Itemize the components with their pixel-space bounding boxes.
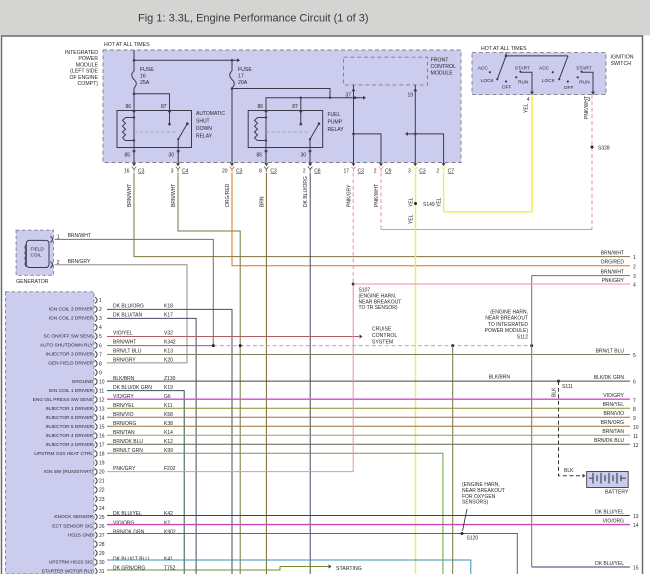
- generator pin1 bracket: [51, 236, 53, 242]
- relay K1 pin 30 exit arrow: [177, 148, 179, 164]
- svg-text:FUSE: FUSE: [140, 67, 154, 73]
- svg-text:IGN COIL 3 DRIVER: IGN COIL 3 DRIVER: [49, 307, 94, 313]
- battery arrow: [583, 474, 586, 478]
- svg-text:DK BLU/YEL: DK BLU/YEL: [595, 561, 624, 567]
- svg-text:OFF: OFF: [564, 85, 574, 91]
- wire PNK/GRY from 17C3 to S107: [352, 173, 354, 284]
- connector 2 C8 exit: [308, 163, 312, 166]
- wire ASD 87 feed: [134, 94, 170, 111]
- svg-text:9: 9: [633, 416, 636, 422]
- svg-text:ACC: ACC: [478, 66, 489, 72]
- svg-text:LOCK: LOCK: [481, 78, 495, 84]
- svg-text:17: 17: [238, 74, 244, 80]
- svg-text:YEL: YEL: [524, 103, 530, 113]
- wire K13 injector 3 to right edge (5): [107, 354, 630, 356]
- wire Z130 ground to S111: [107, 380, 559, 382]
- battery symbol cells: [589, 477, 593, 479]
- title bar: [0, 0, 650, 36]
- svg-text:16: 16: [124, 169, 130, 175]
- oxygen sensors pointer line: [463, 509, 468, 531]
- svg-text:S112: S112: [517, 334, 529, 340]
- generator pin2 bracket: [51, 262, 53, 268]
- svg-text:YEL: YEL: [409, 214, 415, 224]
- wire ORG/RED from 20C3 to right edge (2): [232, 173, 630, 266]
- svg-text:FUSE: FUSE: [238, 67, 252, 73]
- svg-text:15: 15: [99, 425, 105, 431]
- svg-text:STARTER MOTOR RLY: STARTER MOTOR RLY: [42, 568, 94, 574]
- svg-text:4: 4: [527, 97, 530, 103]
- wire K2 ECT sensor to right edge (14): [107, 524, 630, 526]
- svg-text:HOT AT ALL TIMES: HOT AT ALL TIMES: [481, 46, 527, 52]
- svg-text:23: 23: [99, 497, 105, 503]
- svg-text:C8: C8: [314, 169, 321, 175]
- wire FPR 87 drop: [300, 98, 302, 111]
- node FCM19 branch: [414, 133, 417, 136]
- svg-text:BRN/DK BLU: BRN/DK BLU: [594, 438, 624, 444]
- wire top bus: [134, 59, 237, 61]
- svg-text:85: 85: [124, 153, 130, 159]
- svg-text:6: 6: [99, 343, 102, 349]
- svg-text:87: 87: [161, 104, 167, 110]
- svg-text:DK BLU/ORG: DK BLU/ORG: [303, 176, 309, 207]
- relay K2 pin 85 exit arrow: [265, 148, 267, 164]
- svg-text:INJECTOR 2 DRIVER: INJECTOR 2 DRIVER: [46, 442, 94, 448]
- svg-text:K902: K902: [164, 529, 176, 535]
- svg-text:BRN/WHT: BRN/WHT: [68, 233, 91, 239]
- svg-text:MODULE: MODULE: [431, 71, 454, 77]
- wire fuel pump relay feed upper: [232, 89, 330, 98]
- svg-text:2: 2: [99, 307, 102, 313]
- wire K38 injector5 to right edge (10): [107, 425, 630, 427]
- wire branch down from dashed run: [452, 346, 454, 574]
- svg-text:LOCK: LOCK: [542, 78, 556, 84]
- svg-text:86: 86: [257, 104, 263, 110]
- connector 17 C3 exit: [352, 163, 356, 166]
- relay K2 pin 87 arrow: [299, 111, 303, 114]
- node splice S120: [461, 532, 464, 535]
- wire PNK/WHT from ignition pin3: [591, 95, 593, 230]
- svg-text:BRN/GRY: BRN/GRY: [68, 259, 91, 265]
- svg-text:BRN/TAN: BRN/TAN: [602, 429, 624, 435]
- svg-text:20A: 20A: [238, 80, 248, 86]
- svg-text:17: 17: [99, 443, 105, 449]
- wire K902 HO2S ground: [107, 534, 517, 574]
- svg-text:7: 7: [99, 352, 102, 358]
- svg-text:POWER: POWER: [78, 56, 98, 62]
- ignition switch1 output wire: [520, 72, 532, 94]
- svg-text:BRN/DK GRN: BRN/DK GRN: [113, 529, 145, 535]
- svg-text:DOWN: DOWN: [196, 126, 212, 132]
- svg-text:PNK/WHT: PNK/WHT: [374, 184, 380, 207]
- svg-text:10: 10: [633, 425, 639, 431]
- wire K342 auto shutdown solid: [107, 345, 213, 347]
- svg-text:BRN: BRN: [259, 196, 265, 207]
- generator box: [16, 230, 53, 275]
- relay K2 switch blade: [310, 124, 319, 140]
- svg-text:IGNITION: IGNITION: [611, 55, 634, 61]
- wire T752 starter motor rly: [107, 567, 328, 571]
- wire fuse17 down to C3 exit: [231, 88, 233, 164]
- svg-text:K2: K2: [164, 520, 170, 526]
- wire K41 upstream HO2S: [107, 560, 471, 574]
- wire K17 ign coil 2: [107, 318, 196, 574]
- node fuse17 branch junction: [231, 87, 234, 90]
- wire BRN/WHT S112 riser to right edge (3): [532, 276, 630, 346]
- relay K1 pin 30 wire: [177, 139, 179, 147]
- svg-text:1: 1: [633, 255, 636, 261]
- svg-text:BLK/BRN: BLK/BRN: [489, 375, 511, 381]
- relay K2 pin 86 arrow: [264, 111, 268, 114]
- svg-text:13: 13: [633, 514, 639, 520]
- svg-text:BRN/ORG: BRN/ORG: [601, 420, 624, 426]
- svg-text:13: 13: [99, 406, 105, 412]
- node splice junctions on K342 run: [212, 344, 215, 347]
- battery box: [587, 472, 629, 488]
- svg-text:3: 3: [171, 169, 174, 175]
- svg-text:21: 21: [99, 479, 105, 485]
- svg-text:12: 12: [633, 443, 639, 449]
- svg-text:Fig 1: 3.3L, Engine Performanc: Fig 1: 3.3L, Engine Performance Circuit …: [138, 13, 369, 25]
- svg-text:SENSORS): SENSORS): [462, 500, 488, 506]
- svg-text:12: 12: [99, 397, 105, 403]
- wire K11 injector1 to right edge (8): [107, 407, 630, 409]
- svg-text:DK BLU/TAN: DK BLU/TAN: [113, 313, 142, 319]
- wire FCM37 branch to C9: [354, 134, 382, 164]
- svg-text:K13: K13: [164, 349, 173, 355]
- connector 8 C3 exit: [264, 163, 268, 166]
- svg-text:S149: S149: [423, 202, 435, 208]
- svg-text:ORG/RED: ORG/RED: [225, 183, 231, 207]
- field coil winding bumps: [25, 245, 26, 267]
- svg-text:BLK: BLK: [564, 468, 574, 474]
- svg-text:KNOCK SENSOR: KNOCK SENSOR: [54, 514, 93, 520]
- svg-text:START: START: [515, 66, 530, 72]
- svg-text:1: 1: [99, 298, 102, 304]
- svg-text:BRN/WHT: BRN/WHT: [113, 340, 136, 346]
- FCM pin 19 wire: [414, 85, 416, 164]
- svg-text:CONTROL: CONTROL: [431, 64, 456, 70]
- relay K1 switch blade: [178, 124, 187, 140]
- svg-text:2: 2: [633, 264, 636, 270]
- svg-text:INJECTOR 5 DRIVER: INJECTOR 5 DRIVER: [46, 424, 94, 430]
- svg-text:RELAY: RELAY: [196, 134, 213, 140]
- svg-text:VIO/ORG: VIO/ORG: [113, 520, 135, 526]
- svg-text:RUN: RUN: [518, 79, 529, 85]
- svg-text:11: 11: [633, 434, 638, 440]
- svg-text:FIELD: FIELD: [31, 247, 45, 252]
- svg-text:TO TR SENSOR): TO TR SENSOR): [359, 305, 398, 311]
- wire PNK/GRY to right edge (4): [353, 283, 630, 285]
- svg-text:(LEFT SIDE: (LEFT SIDE: [70, 69, 98, 75]
- relay K2 87 contact stub: [300, 111, 302, 125]
- svg-text:HOT AT ALL TIMES: HOT AT ALL TIMES: [104, 42, 150, 48]
- relay K2 coil wire: [265, 111, 267, 148]
- svg-text:UPSTRM O2S HEAT CTRL: UPSTRM O2S HEAT CTRL: [34, 451, 93, 457]
- svg-text:8: 8: [633, 407, 636, 413]
- node FCM37 branch: [352, 133, 355, 136]
- svg-text:ACC: ACC: [539, 66, 550, 72]
- svg-text:30: 30: [99, 560, 105, 566]
- svg-text:POWER MODULE): POWER MODULE): [485, 328, 529, 334]
- svg-text:SYSTEM: SYSTEM: [372, 340, 393, 346]
- svg-text:BRN/LT BLU: BRN/LT BLU: [596, 348, 625, 354]
- svg-text:OFF: OFF: [502, 84, 512, 90]
- svg-text:15: 15: [633, 566, 639, 572]
- svg-text:C7: C7: [448, 169, 455, 175]
- svg-text:UPSTRM HO2S SIG: UPSTRM HO2S SIG: [49, 559, 94, 565]
- ignition pin4 exit arrow: [530, 92, 534, 95]
- FPR feed continuation arrow: [363, 96, 366, 100]
- svg-text:CRUISE: CRUISE: [372, 327, 392, 333]
- wire PNK/WHT from 2C9 down: [380, 173, 382, 230]
- svg-text:C3: C3: [138, 169, 145, 175]
- node splice S149: [414, 202, 417, 205]
- svg-text:20: 20: [222, 169, 228, 175]
- relay K1 pin 85 exit arrow: [133, 148, 135, 164]
- svg-text:PNK/WHT: PNK/WHT: [584, 96, 590, 119]
- svg-text:6: 6: [633, 380, 636, 386]
- svg-text:AUTO SHUTDOWN RLY: AUTO SHUTDOWN RLY: [40, 343, 94, 349]
- svg-text:VIO/ORG: VIO/ORG: [603, 518, 625, 524]
- wire BRN/GRY generator field: [55, 265, 188, 363]
- wire K58 injector6 to right edge (9): [107, 416, 630, 418]
- ignition feed stub: [505, 53, 507, 56]
- cruise control arrow: [360, 335, 363, 339]
- node splice S112: [530, 344, 533, 347]
- PCM module box: [6, 292, 95, 574]
- wire BLK ground dashed: [559, 381, 581, 476]
- wire K12 injector2 to right edge (12): [107, 443, 630, 445]
- svg-text:VIO/YEL: VIO/YEL: [113, 331, 133, 337]
- svg-text:11: 11: [99, 388, 104, 394]
- svg-text:30: 30: [300, 153, 306, 159]
- ignition switch box: [472, 53, 606, 95]
- relay K1 coil zigzag: [123, 118, 126, 141]
- FCM19 continuation arrow: [408, 133, 415, 135]
- node FPR feed junctions: [300, 97, 302, 99]
- node ASD feed junction: [133, 93, 136, 96]
- relay K1 pin 86 arrow: [132, 111, 136, 114]
- ignition pin3 exit arrow: [591, 92, 595, 95]
- svg-text:BRN/WHT: BRN/WHT: [601, 269, 624, 275]
- svg-text:DK BLU/YEL: DK BLU/YEL: [595, 509, 624, 515]
- wire fuse17 stub: [231, 60, 233, 71]
- wire V32 cruise: [107, 336, 359, 338]
- connector 2 C9 exit: [379, 163, 383, 166]
- starting system arrow: [329, 565, 332, 569]
- svg-text:START: START: [576, 66, 591, 72]
- svg-text:YEL: YEL: [408, 197, 414, 207]
- svg-text:19: 19: [99, 461, 105, 467]
- wire G6 VIO/GRY to right edge (7): [107, 398, 630, 400]
- svg-text:19: 19: [407, 93, 413, 99]
- fuse F17 symbol: [230, 71, 235, 88]
- svg-text:S328: S328: [598, 146, 610, 152]
- svg-text:31: 31: [99, 569, 105, 574]
- wire YEL from 2C7: [443, 173, 445, 212]
- svg-text:RELAY: RELAY: [328, 127, 345, 133]
- svg-text:30: 30: [168, 153, 174, 159]
- node relay K1 coil taps: [133, 116, 135, 118]
- svg-text:DK BLU/LT BLU: DK BLU/LT BLU: [113, 556, 149, 562]
- svg-text:STARTING: STARTING: [336, 566, 362, 572]
- wire K20 gen field: [107, 362, 187, 364]
- svg-text:ORG/RED: ORG/RED: [601, 260, 625, 266]
- wire FCM19 branch to C7: [415, 134, 443, 164]
- node splice S328: [591, 146, 594, 149]
- wire S112 column drop: [531, 346, 533, 567]
- svg-text:BLK: BLK: [552, 387, 558, 397]
- svg-text:COIL: COIL: [31, 253, 42, 258]
- svg-text:28: 28: [99, 542, 105, 548]
- svg-text:K42: K42: [164, 511, 173, 517]
- svg-text:2: 2: [436, 169, 439, 175]
- svg-text:SHUT: SHUT: [196, 119, 210, 125]
- svg-text:17: 17: [343, 169, 349, 175]
- svg-text:4: 4: [99, 325, 102, 331]
- wire BRN/WHT from 3C4 to splice branch: [178, 173, 240, 574]
- relay K1 actuation dashed link: [134, 131, 176, 133]
- svg-text:PNK/GRY: PNK/GRY: [347, 184, 353, 207]
- svg-text:3: 3: [99, 316, 102, 322]
- svg-text:26: 26: [99, 524, 105, 530]
- wire DK BLU/YEL to right edge (15): [532, 566, 630, 568]
- svg-text:BRN/VIO: BRN/VIO: [603, 411, 624, 417]
- svg-text:NEAR BREAKOUT: NEAR BREAKOUT: [485, 316, 528, 322]
- wire K42 knock sensor to right edge (13): [107, 515, 630, 517]
- svg-text:BRN/WHT: BRN/WHT: [601, 250, 624, 256]
- svg-text:25A: 25A: [140, 80, 150, 86]
- svg-text:HO2S GND: HO2S GND: [68, 532, 94, 538]
- svg-text:INTEGRATED: INTEGRATED: [65, 50, 98, 56]
- svg-text:ECT SENSOR SIG: ECT SENSOR SIG: [52, 523, 93, 529]
- svg-text:3: 3: [633, 274, 636, 280]
- svg-text:S111: S111: [562, 384, 573, 390]
- svg-text:BRN/LT BLU: BRN/LT BLU: [113, 349, 142, 355]
- relay K1 coil wire: [133, 111, 135, 148]
- svg-text:RUN: RUN: [579, 79, 590, 85]
- node fuse16 bus junction: [133, 59, 136, 62]
- svg-text:COMPT): COMPT): [78, 81, 99, 87]
- svg-text:20: 20: [99, 470, 105, 476]
- ignition switch2 wiper: [559, 56, 568, 79]
- node splice S107: [352, 283, 355, 286]
- svg-text:FRONT: FRONT: [431, 58, 450, 64]
- wire K99 O2 heater: [107, 453, 443, 574]
- wire BLK/DK GRN to right edge (6): [559, 380, 631, 382]
- node relay K2 coil taps: [265, 116, 267, 118]
- relay K2 coil zigzag: [255, 118, 258, 141]
- connector 2 C7 exit: [442, 163, 446, 166]
- wire K19 ign coil 1: [107, 391, 184, 574]
- svg-text:SWITCH: SWITCH: [611, 61, 632, 67]
- FCM pin 37 wire: [353, 85, 355, 164]
- svg-text:18: 18: [99, 452, 105, 458]
- fuse F16 symbol: [132, 71, 137, 88]
- svg-text:27: 27: [99, 533, 105, 539]
- svg-text:BRN/WHT: BRN/WHT: [127, 184, 133, 207]
- svg-text:C3: C3: [270, 169, 277, 175]
- svg-text:25: 25: [99, 515, 105, 521]
- svg-text:14: 14: [633, 523, 639, 529]
- wire ASD 86 drop: [133, 94, 135, 111]
- PCM pin brackets: [95, 297, 97, 303]
- svg-text:8: 8: [99, 361, 102, 367]
- svg-text:K342: K342: [164, 340, 176, 346]
- svg-text:4: 4: [633, 283, 636, 289]
- integrated power module box (IPM): [103, 50, 461, 163]
- svg-text:DK BLU/ORG: DK BLU/ORG: [113, 304, 144, 310]
- svg-text:9: 9: [99, 370, 102, 376]
- connector 16 C3 exit: [132, 163, 136, 166]
- ignition switch1 wiper: [497, 56, 506, 79]
- ignition switch2 contacts: [552, 71, 554, 73]
- connector 20 C3 exit: [230, 163, 234, 166]
- svg-text:PNK/GRY: PNK/GRY: [602, 278, 625, 284]
- svg-text:CONTROL: CONTROL: [372, 333, 397, 339]
- ignition switch2 output wire: [582, 72, 593, 94]
- svg-text:V32: V32: [164, 331, 173, 337]
- relay K1 87 contact stub: [169, 111, 171, 125]
- svg-text:IGN COIL 2 DRIVER: IGN COIL 2 DRIVER: [49, 316, 94, 322]
- field coil inner box: [26, 240, 49, 267]
- wire BRN/WHT from 16C3 to right edge (1): [134, 173, 630, 257]
- svg-text:INJECTOR 3 DRIVER: INJECTOR 3 DRIVER: [46, 352, 94, 358]
- relay K1 pin 87 arrow: [168, 111, 172, 114]
- svg-text:K18: K18: [164, 304, 173, 310]
- svg-text:INJECTOR 4 DRIVER: INJECTOR 4 DRIVER: [46, 433, 94, 439]
- svg-text:PUMP: PUMP: [328, 120, 343, 126]
- svg-text:C3: C3: [236, 169, 243, 175]
- relay K2 pin 30 wire: [309, 139, 311, 147]
- wire BRN/WHT generator field: [55, 239, 214, 345]
- svg-text:24: 24: [99, 506, 105, 512]
- svg-text:S120: S120: [467, 536, 479, 542]
- relay K2 pin 30 exit arrow: [309, 148, 311, 164]
- wire F202 ign switch run/start: [107, 284, 353, 472]
- svg-text:K17: K17: [164, 313, 173, 319]
- svg-text:16: 16: [140, 74, 146, 80]
- connector 3 C3 exit: [413, 163, 417, 166]
- svg-text:BRN/YEL: BRN/YEL: [603, 402, 625, 408]
- wire fuel pump relay feed lower: [266, 98, 363, 111]
- svg-text:85: 85: [256, 153, 262, 159]
- svg-text:TO INTEGRATED: TO INTEGRATED: [488, 322, 528, 328]
- wire BRN from 8C3 down: [265, 173, 267, 574]
- relay K1 ASD box: [117, 111, 192, 148]
- node splice S111: [557, 380, 560, 383]
- svg-text:OF ENGINE: OF ENGINE: [69, 75, 98, 81]
- svg-text:87: 87: [292, 104, 298, 110]
- svg-text:14: 14: [99, 415, 105, 421]
- relay K1 coil bracket: [126, 118, 135, 141]
- svg-text:INJECTOR 1 DRIVER: INJECTOR 1 DRIVER: [46, 406, 94, 412]
- svg-text:BLK/DK GRN: BLK/DK GRN: [594, 375, 625, 381]
- svg-text:5: 5: [633, 353, 636, 359]
- svg-text:K19: K19: [164, 385, 173, 391]
- wire K18 ign coil 3: [107, 309, 232, 574]
- svg-text:(ENGINE HARN,: (ENGINE HARN,: [490, 310, 528, 316]
- svg-text:7: 7: [633, 398, 636, 404]
- svg-text:SC ON/OFF SW SENS: SC ON/OFF SW SENS: [43, 334, 93, 340]
- svg-text:10: 10: [99, 379, 105, 385]
- svg-text:VIO/GRY: VIO/GRY: [603, 393, 624, 399]
- svg-text:29: 29: [99, 551, 105, 557]
- svg-text:BRN/WHT: BRN/WHT: [171, 184, 177, 207]
- wire YEL crossover to ignition pin4: [444, 95, 532, 212]
- ignition feed bus: [506, 55, 568, 57]
- relay K2 fuel pump box: [248, 111, 323, 148]
